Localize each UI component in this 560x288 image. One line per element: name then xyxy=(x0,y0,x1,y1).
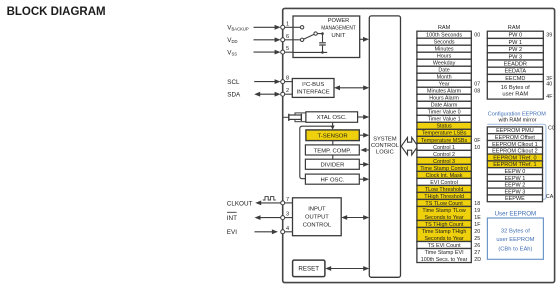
pin 1 xyxy=(281,25,285,29)
svg-text:DIVIDER: DIVIDER xyxy=(320,163,344,169)
blue bracket around configuration EEPROM rows xyxy=(487,124,546,199)
register row 100th Seconds xyxy=(417,31,480,38)
arrow PMU to system control logic xyxy=(360,38,365,40)
wire T-SENSOR to TEMP. COMP. xyxy=(332,141,334,145)
wire cap to VSS rail xyxy=(322,46,324,53)
register row Year xyxy=(417,80,480,87)
block XTAL OSC. xyxy=(306,112,358,123)
svg-text:RAM: RAM xyxy=(438,25,451,31)
register row Hours Alarm xyxy=(417,94,471,101)
register row Timer Value 0 xyxy=(417,108,471,115)
svg-text:100th Secs. to Year: 100th Secs. to Year xyxy=(421,257,468,263)
register row EEDATA xyxy=(487,67,543,75)
svg-text:4: 4 xyxy=(286,226,289,232)
svg-text:3: 3 xyxy=(286,212,289,218)
capacitor C1 xyxy=(319,42,326,44)
register row THigh Threshold xyxy=(417,192,471,199)
arrow IOC to system control logic bidirectional xyxy=(346,217,366,219)
svg-text:SDA: SDA xyxy=(227,92,241,99)
svg-text:8: 8 xyxy=(286,76,289,82)
wire SDA bidirectional xyxy=(259,93,277,95)
register row TS THigh Count xyxy=(417,220,481,227)
register row Minutes xyxy=(417,45,471,52)
svg-text:1E: 1E xyxy=(474,215,481,221)
register row Month xyxy=(417,73,471,80)
register row EEPROM Clkout 1 xyxy=(487,141,542,148)
wire pole to cap rail xyxy=(317,33,322,35)
svg-text:(CBh to EAh): (CBh to EAh) xyxy=(498,247,532,253)
register row EEPROM TRef. 1 xyxy=(487,161,542,168)
wire VBACKUP xyxy=(254,26,277,28)
wire INT xyxy=(259,217,281,219)
svg-text:EVI: EVI xyxy=(227,229,237,236)
register row Control 1 xyxy=(417,143,480,150)
register row EVI Control xyxy=(417,178,471,185)
block INPUT OUTPUT CONTROL xyxy=(293,198,342,236)
svg-text:User EEPROM: User EEPROM xyxy=(495,211,537,218)
arrow HF OSC to system control logic xyxy=(359,178,365,180)
svg-text:EEPWE: EEPWE xyxy=(505,196,525,202)
svg-text:Time Stamp EVI: Time Stamp EVI xyxy=(425,250,464,256)
svg-text:19: 19 xyxy=(474,208,480,214)
svg-text:VBACKUP: VBACKUP xyxy=(227,25,249,32)
junction dot top xyxy=(321,32,324,35)
svg-text:6: 6 xyxy=(286,34,289,40)
switch contact VDD xyxy=(300,38,303,41)
block TEMP. COMP. xyxy=(305,145,359,155)
wire pin3 to IOC xyxy=(285,217,293,219)
block DIVIDER xyxy=(305,159,359,169)
block HF OSC. xyxy=(305,174,359,184)
svg-text:Time Stamp THigh: Time Stamp THigh xyxy=(422,229,467,235)
arrow RESET to system control logic bidirectional xyxy=(330,268,366,270)
register row Time Stamp EVI / 100th Secs. to Year xyxy=(417,249,481,263)
svg-text:0F: 0F xyxy=(474,138,481,144)
crystal X1 symbol xyxy=(284,116,289,118)
register row Hours xyxy=(417,52,471,59)
block 32 Bytes of user EEPROM xyxy=(487,218,543,259)
pin 2 xyxy=(281,92,285,96)
arrow I2C to system control logic bidirectional xyxy=(338,87,365,89)
svg-text:39: 39 xyxy=(546,33,552,39)
svg-text:VSS: VSS xyxy=(227,49,237,56)
register row EEPROM Offset xyxy=(487,134,542,141)
switch pole contact xyxy=(314,32,317,35)
arrow DIVIDER to system control logic xyxy=(359,163,365,165)
register row PW 3 xyxy=(487,53,543,61)
svg-text:UNIT: UNIT xyxy=(331,33,346,39)
register row TS EVI Count xyxy=(417,242,480,249)
register row Weekday xyxy=(417,59,471,66)
register row Minutes Alarm xyxy=(417,87,480,94)
svg-text:SCL: SCL xyxy=(227,79,240,86)
switch contact VBACKUP xyxy=(300,26,303,29)
svg-text:INPUT: INPUT xyxy=(308,207,326,213)
svg-text:Time Stamp TLow: Time Stamp TLow xyxy=(422,208,466,214)
pin 8 xyxy=(281,80,285,84)
svg-text:HF OSC.: HF OSC. xyxy=(320,178,344,184)
wire pin1 to switch contact xyxy=(285,26,301,28)
svg-text:20: 20 xyxy=(474,229,480,235)
register row Date xyxy=(417,66,471,73)
block T-SENSOR xyxy=(306,130,359,141)
svg-text:08: 08 xyxy=(474,89,480,95)
svg-text:RESET: RESET xyxy=(298,266,319,273)
register row TS TLow Count xyxy=(417,199,480,206)
svg-text:CLKOUT: CLKOUT xyxy=(227,200,253,207)
svg-text:SYSTEM: SYSTEM xyxy=(373,136,397,142)
svg-text:TEMP. COMP.: TEMP. COMP. xyxy=(314,148,352,154)
svg-text:32 Bytes of: 32 Bytes of xyxy=(501,229,530,235)
register row EEPW 1 xyxy=(487,175,542,182)
svg-text:4F: 4F xyxy=(546,94,553,100)
register row Time Stamp Control xyxy=(417,164,471,171)
register row PW 1 xyxy=(487,38,543,46)
register row EEPROM PMU xyxy=(487,127,542,134)
register row Time Stamp THigh / Seconds to Year xyxy=(417,227,480,241)
svg-text:POWER: POWER xyxy=(328,18,350,24)
svg-text:7: 7 xyxy=(286,197,289,203)
svg-text:MANAGEMENT: MANAGEMENT xyxy=(321,26,356,32)
register row Control 2 xyxy=(417,150,471,157)
register row EECMD xyxy=(487,74,553,82)
block I2C-BUS INTERFACE xyxy=(292,79,334,98)
arrow T-SENSOR to system control logic xyxy=(359,134,365,136)
svg-text:00: 00 xyxy=(474,33,480,39)
svg-text:XTAL OSC.: XTAL OSC. xyxy=(317,115,347,121)
svg-text:LOGIC: LOGIC xyxy=(376,150,394,156)
wire pin4 to IOC xyxy=(285,231,293,233)
register row EEPROM TRef. 0 xyxy=(487,154,542,161)
svg-text:CONTROL: CONTROL xyxy=(371,143,399,149)
pin 7 xyxy=(281,201,285,205)
svg-text:C0: C0 xyxy=(548,126,555,132)
svg-text:OUTPUT: OUTPUT xyxy=(305,215,329,221)
svg-text:T-SENSOR: T-SENSOR xyxy=(318,133,348,139)
svg-text:27: 27 xyxy=(474,250,480,256)
svg-text:1: 1 xyxy=(286,21,289,27)
clock square-wave glyph xyxy=(263,197,276,200)
switch lever xyxy=(304,34,315,39)
register row PW 0 xyxy=(487,31,552,39)
svg-text:BLOCK DIAGRAM: BLOCK DIAGRAM xyxy=(7,6,106,18)
wire EVI xyxy=(255,231,274,233)
svg-text:2D: 2D xyxy=(474,257,481,263)
register row EEPW 3 xyxy=(487,188,542,195)
svg-text:user EEPROM: user EEPROM xyxy=(496,237,534,243)
svg-text:INTERFACE: INTERFACE xyxy=(297,89,330,95)
svg-text:2: 2 xyxy=(286,88,289,94)
register row Seconds xyxy=(417,38,471,45)
register row Date Alarm xyxy=(417,101,471,108)
wire pin7 to IOC xyxy=(285,202,293,204)
wire VDD xyxy=(254,39,277,41)
register row Status xyxy=(417,122,471,129)
svg-text:5: 5 xyxy=(286,46,289,52)
register row Time Stamp TLow / Seconds to Year xyxy=(417,206,481,220)
wire pin2 to I2C block xyxy=(285,93,293,95)
junction dot bottom xyxy=(321,51,324,54)
wire VSS rail xyxy=(285,51,293,53)
svg-text:INT: INT xyxy=(227,215,237,222)
pin 4 xyxy=(281,230,285,234)
wire VSS xyxy=(254,51,277,53)
pin 5 xyxy=(281,50,285,54)
svg-text:CONTROL: CONTROL xyxy=(303,223,332,229)
register row EEPROM Clkout 2 xyxy=(487,147,542,154)
svg-text:CA: CA xyxy=(546,194,554,200)
register row Temperature LSBs xyxy=(417,129,471,136)
wire branch to HF OSC (rounded bracket) xyxy=(300,126,333,179)
svg-text:VDD: VDD xyxy=(227,37,237,44)
bus fat double arrow xyxy=(401,137,418,155)
wire XTAL OSC down to T-SENSOR with arrow xyxy=(332,122,334,126)
svg-text:with RAM mirror: with RAM mirror xyxy=(499,118,537,124)
svg-text:07: 07 xyxy=(474,82,480,88)
svg-text:40: 40 xyxy=(546,81,552,87)
svg-text:26: 26 xyxy=(474,243,480,249)
register row Temperature MSBs xyxy=(417,136,481,143)
wire pin8 to I2C block xyxy=(285,81,293,83)
register row EEPW 0 xyxy=(487,168,542,175)
register row Control 3 xyxy=(417,157,471,164)
wire CLKOUT xyxy=(260,202,281,204)
svg-text:10: 10 xyxy=(474,145,480,151)
arrow XTAL OSC to system control logic xyxy=(358,116,365,118)
IC outer box xyxy=(283,8,555,282)
pin 3 xyxy=(281,216,285,220)
block RESET xyxy=(293,260,325,277)
wire rail down xyxy=(322,34,324,42)
register block 16 Bytes of user RAM xyxy=(487,81,553,100)
svg-text:16 Bytes of: 16 Bytes of xyxy=(501,85,530,91)
svg-text:I2C-BUS: I2C-BUS xyxy=(302,80,324,88)
svg-text:user RAM: user RAM xyxy=(502,92,528,98)
pin 6 xyxy=(281,38,285,42)
register row Timer Value 1 xyxy=(417,115,471,122)
svg-text:18: 18 xyxy=(474,201,480,207)
register row PW 2 xyxy=(487,46,543,54)
register row Clock Int. Mask xyxy=(417,171,471,178)
register row EEPW 2 xyxy=(487,181,542,188)
block SYSTEM CONTROL LOGIC xyxy=(369,16,400,277)
wire SCL xyxy=(254,81,276,83)
wire TEMP. COMP. to DIVIDER xyxy=(332,155,334,159)
register row EEPWE xyxy=(487,195,542,202)
register row EEADDR xyxy=(487,60,543,68)
svg-text:25: 25 xyxy=(474,236,480,242)
block U1 POWER MANAGEMENT UNIT xyxy=(293,16,360,58)
arrow system control logic to TEMP. COMP. xyxy=(365,149,370,151)
svg-text:1F: 1F xyxy=(474,222,481,228)
svg-text:RAM: RAM xyxy=(508,25,521,31)
register row TLow Threshold xyxy=(417,185,471,192)
wire pin6 to switch contact xyxy=(285,39,301,41)
